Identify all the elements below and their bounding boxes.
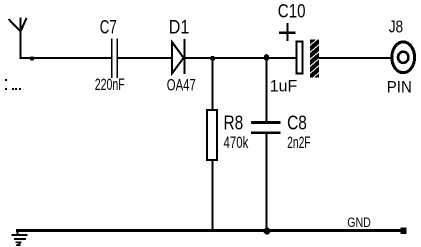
wire C10 to J8 (319, 57, 392, 59)
wire node A to node B (213, 57, 267, 59)
svg-text:D1: D1 (169, 17, 190, 38)
svg-text:PIN: PIN (387, 78, 412, 97)
stray dots left margin (5, 79, 21, 90)
capacitor C10 negative plate (hatched) (308, 36, 321, 82)
svg-text:R8: R8 (224, 112, 244, 134)
svg-text:2n2F: 2n2F (287, 134, 311, 152)
wire R8 to GND rail (212, 160, 214, 231)
svg-text:C7: C7 (100, 17, 117, 38)
wire D1 to node A (186, 57, 213, 59)
wire antenna to C7 (20, 57, 112, 59)
junction on antenna wire (30, 56, 34, 60)
GND rail wire (16, 229, 403, 232)
svg-text:470k: 470k (224, 134, 249, 152)
wire node A down to R8 (212, 58, 214, 110)
resistor R8 (207, 110, 217, 160)
svg-text:OA47: OA47 (167, 77, 196, 95)
antenna ANT (9, 18, 27, 59)
diode D1 (172, 39, 186, 74)
svg-text:C10: C10 (278, 2, 306, 23)
svg-text:1uF: 1uF (270, 78, 298, 96)
svg-text:J8: J8 (389, 17, 404, 37)
connector J8 (392, 42, 415, 73)
ground symbol (12, 230, 28, 246)
junction C8 on GND rail (264, 228, 271, 235)
wire C7 to D1 (118, 57, 172, 59)
junction node B (264, 54, 269, 61)
wire C8 to GND rail (266, 133, 268, 231)
svg-text:220nF: 220nF (95, 76, 125, 94)
svg-text:C8: C8 (287, 112, 307, 134)
GND rail end dot (401, 228, 407, 235)
svg-text:GND: GND (347, 215, 371, 231)
capacitor C10 positive plate (297, 42, 303, 74)
capacitor C8 (251, 121, 281, 134)
capacitor C7 (111, 39, 118, 79)
wire node B down to C8 (266, 58, 268, 122)
capacitor C10 plus sign (279, 23, 296, 41)
junction node A (210, 56, 215, 61)
wire node B to C10 (267, 57, 297, 59)
